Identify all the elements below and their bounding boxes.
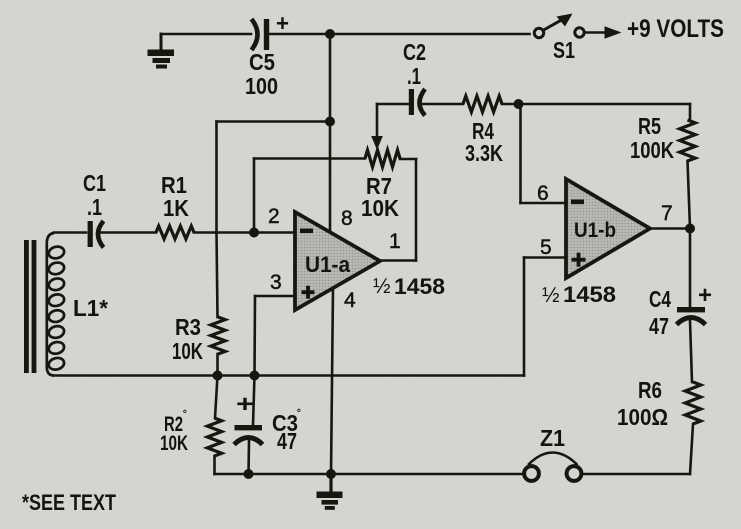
- wire (pin 4 to ground): [331, 288, 333, 474]
- wire: [689, 104, 692, 120]
- pin 1 output wire: [380, 259, 416, 262]
- pin 7 wire: [650, 227, 690, 230]
- node junction (C5 / V+ rail): [325, 29, 335, 39]
- svg-text:+: +: [276, 10, 289, 36]
- svg-text:R5: R5: [638, 113, 661, 139]
- svg-text:2: 2: [268, 205, 280, 228]
- wire: [502, 103, 690, 106]
- svg-text:C1: C1: [83, 170, 106, 196]
- svg-text:100K: 100K: [630, 137, 674, 163]
- wire (C3 bottom lead): [247, 441, 250, 474]
- svg-text:100: 100: [245, 73, 278, 99]
- op-amp U1-a: [295, 212, 380, 310]
- capacitor C1: [83, 170, 106, 248]
- switch S1: [534, 14, 584, 64]
- wire: [216, 354, 219, 376]
- wire (reference rail): [54, 374, 524, 377]
- svg-text:C4: C4: [649, 286, 671, 312]
- svg-text:Z1: Z1: [540, 425, 565, 451]
- svg-text:R6: R6: [638, 377, 662, 403]
- svg-text:S1: S1: [553, 37, 575, 63]
- svg-text:R3: R3: [175, 314, 201, 340]
- svg-text:10K: 10K: [361, 195, 399, 221]
- svg-text:47: 47: [649, 313, 669, 339]
- pin 3 wire: [255, 295, 295, 298]
- svg-text:˚: ˚: [183, 408, 187, 423]
- svg-text:.1: .1: [407, 63, 421, 89]
- svg-text:7: 7: [661, 202, 673, 225]
- potentiometer R7: [365, 150, 400, 167]
- wire: [217, 120, 331, 123]
- resistor R6: [685, 382, 701, 424]
- svg-text:C2: C2: [403, 39, 426, 65]
- svg-text:47: 47: [277, 428, 297, 454]
- wire: [689, 229, 692, 308]
- svg-text:L1*: L1*: [73, 295, 108, 321]
- wire (bottom rail): [215, 473, 523, 476]
- svg-text:3.3K: 3.3K: [465, 140, 503, 166]
- svg-text:1458: 1458: [563, 282, 616, 307]
- svg-text:½: ½: [542, 284, 560, 307]
- node junction (R4 out): [514, 99, 524, 109]
- wire (R2 lead): [215, 376, 218, 419]
- earphone Z1: [524, 425, 581, 481]
- capacitor C2: [403, 39, 426, 116]
- op-amp U1-b: [566, 179, 650, 278]
- svg-text:100Ω: 100Ω: [617, 404, 668, 430]
- svg-text:C5: C5: [249, 49, 275, 75]
- svg-text:10K: 10K: [160, 432, 188, 455]
- wire: [100, 231, 156, 234]
- wire (R2 to bottom rail): [213, 456, 216, 474]
- svg-text:6: 6: [537, 182, 549, 205]
- wire: [690, 321, 692, 382]
- inductor L1: [47, 233, 66, 376]
- node junction (C3 bottom): [244, 469, 254, 479]
- wire (C3 top lead): [253, 376, 255, 426]
- node junction (C3 top): [250, 371, 260, 381]
- svg-text:*SEE TEXT: *SEE TEXT: [22, 490, 116, 515]
- wire: [377, 103, 409, 106]
- wire: [688, 161, 691, 229]
- svg-text:½: ½: [373, 275, 391, 298]
- resistor R5: [680, 120, 696, 161]
- wire (feedback to pin 2): [400, 158, 416, 161]
- node junction (inverting input): [249, 228, 259, 238]
- wire (arrow to +9 V): [586, 26, 622, 38]
- svg-text:1K: 1K: [163, 195, 189, 221]
- svg-text:8: 8: [341, 207, 353, 230]
- wire (R3 branch): [217, 233, 218, 318]
- wire: [54, 231, 86, 234]
- svg-text:U1-b: U1-b: [574, 219, 616, 242]
- svg-text:3: 3: [270, 271, 282, 294]
- node junction (ground): [326, 469, 336, 479]
- svg-text:10K: 10K: [172, 338, 203, 364]
- capacitor C5: [245, 10, 289, 99]
- capacitor C4: [649, 282, 712, 339]
- wiper arrow (R7): [376, 104, 379, 138]
- svg-text:1: 1: [389, 230, 401, 253]
- svg-text:4: 4: [344, 289, 356, 312]
- svg-text:+: +: [236, 391, 254, 418]
- resistor R2: [207, 418, 221, 456]
- wire: [269, 33, 330, 36]
- node junction (bias tap): [325, 117, 335, 127]
- wire: [421, 103, 463, 106]
- node junction (R3/R2): [213, 371, 223, 381]
- wire (pin 6 branch): [519, 104, 522, 203]
- svg-text:1458: 1458: [394, 274, 445, 299]
- wire: [330, 33, 530, 36]
- resistor R4: [463, 96, 502, 112]
- wire (pin 8 riser): [329, 34, 332, 231]
- svg-text:U1-a: U1-a: [305, 252, 351, 277]
- wire: [161, 33, 251, 36]
- pin 5 wire: [524, 256, 566, 259]
- resistor R1: [156, 226, 194, 239]
- resistor R3: [211, 317, 225, 354]
- svg-text:.1: .1: [87, 194, 102, 220]
- svg-text:5: 5: [540, 236, 552, 259]
- svg-text:+9 VOLTS: +9 VOLTS: [627, 15, 724, 43]
- wire: [690, 424, 693, 474]
- ground (top-left): [148, 34, 175, 69]
- svg-text:˚: ˚: [297, 407, 301, 422]
- capacitor C3: [234, 391, 301, 454]
- node junction (output): [685, 224, 695, 234]
- wire: [194, 231, 295, 234]
- inductor L1 core: [24, 240, 29, 373]
- svg-text:+: +: [698, 282, 712, 309]
- ground (bottom): [317, 474, 343, 510]
